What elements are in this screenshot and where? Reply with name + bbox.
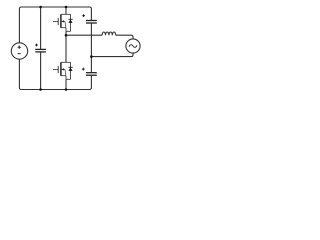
- wire output node A to inductor: [66, 34, 102, 36]
- wire V- bottom rail with corners: [19, 59, 91, 89]
- capacitor C1 plates: [35, 49, 46, 52]
- wire bridge leg drain stub Q1: [65, 7, 67, 14]
- wire C1 branch upper: [40, 7, 42, 49]
- junction dot top rail Q1: [65, 6, 68, 9]
- junction dot bottom rail Q2: [65, 88, 68, 91]
- junction dot output node A: [65, 34, 68, 37]
- MOSFET Q1 with body diode D1: [53, 14, 73, 31]
- MOSFET Q2 with body diode D2: [53, 62, 73, 79]
- voltage source V1 minus mark: [18, 53, 21, 55]
- junction dot bottom rail C1: [39, 88, 42, 91]
- capacitor C3 plates: [86, 73, 97, 76]
- junction dot capacitor midpoint: [90, 55, 93, 58]
- capacitor C2 plates: [86, 21, 97, 24]
- wire V+ top rail with corners: [19, 7, 91, 43]
- wire source lead Q2 to bottom rail: [65, 79, 67, 89]
- inductor L1: [102, 32, 116, 35]
- capacitor C3 plus label: [82, 68, 85, 71]
- AC source V2 circle: [126, 39, 140, 53]
- capacitor C1 plus label: [35, 44, 38, 47]
- voltage source V1 circle: [11, 43, 27, 59]
- junction dot top rail C1: [39, 6, 42, 9]
- wire AC source bottom to capacitor midpoint: [91, 53, 133, 57]
- wire inductor to AC source top: [116, 35, 133, 39]
- voltage source V1 plus mark: [18, 46, 21, 49]
- capacitor C2 plus label: [82, 14, 85, 17]
- wire C2 C3 branch middle: [90, 23, 92, 72]
- wire C1 branch lower: [40, 52, 42, 89]
- AC source sine symbol: [129, 45, 137, 48]
- wire bridge midpoint leg: [65, 31, 67, 62]
